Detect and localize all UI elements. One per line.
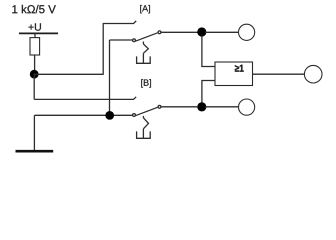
wire node P down — [33, 74, 35, 99]
wire node A to lamp A — [205, 31, 238, 33]
wire to switch A upper contact — [103, 23, 134, 25]
switch B actuator dashed link — [142, 116, 144, 118]
label [A] — [140, 5, 150, 13]
switch B upper contact tick — [133, 97, 136, 100]
lamp OUT indicator — [304, 65, 322, 83]
wire node B to lamp B — [205, 106, 238, 108]
wire node B up to OR gate input 2 — [202, 81, 215, 104]
wire OR gate output — [253, 73, 305, 75]
wire v2 vertical (ground feed) — [109, 40, 111, 115]
wire resistor to node P — [34, 55, 36, 71]
switch A actuator chevron — [143, 44, 148, 53]
wire supply to resistor — [34, 33, 36, 37]
wire down to ground — [33, 115, 35, 150]
switch A upper contact tick — [133, 21, 136, 24]
wire v1 vertical — [102, 24, 104, 75]
wire switch B output — [161, 106, 198, 108]
switch A actuator dashed link — [142, 42, 144, 45]
OR gate label >=1 — [235, 65, 244, 72]
wire to switch B upper contact — [34, 98, 133, 100]
ground bar — [16, 150, 54, 153]
junction dot on ground rail — [105, 111, 114, 120]
wire to switch A lower contact — [110, 39, 133, 41]
supply rail bar — [19, 32, 58, 34]
switch B actuator cup — [137, 131, 151, 138]
switch A actuator cup — [137, 56, 151, 63]
switch A actuator stem — [142, 53, 144, 63]
switch A lower contact circle — [133, 39, 136, 42]
resistor R1 1k — [30, 38, 40, 55]
switch A blade — [135, 33, 157, 41]
node P junction dot — [30, 70, 39, 79]
label [B] — [141, 79, 151, 87]
node B junction dot — [197, 102, 206, 111]
wire switch A output — [161, 31, 198, 33]
supply +U label — [29, 23, 41, 30]
switch B actuator chevron — [143, 118, 148, 129]
switch B blade — [135, 107, 157, 115]
lamp B indicator — [239, 99, 255, 115]
switch A pole circle — [158, 31, 161, 34]
lamp A indicator — [239, 24, 255, 40]
switch B lower contact circle — [133, 114, 136, 117]
label "1 kOhm/5 V" — [12, 5, 55, 13]
ground rail wire — [34, 114, 132, 116]
OR gate U1 box — [215, 62, 253, 86]
wire node P right to v1 — [34, 73, 103, 75]
wire node A down to OR gate input 1 — [202, 36, 215, 67]
switch B actuator stem — [142, 129, 144, 139]
node A junction dot — [197, 27, 206, 36]
switch B pole circle — [158, 105, 161, 108]
